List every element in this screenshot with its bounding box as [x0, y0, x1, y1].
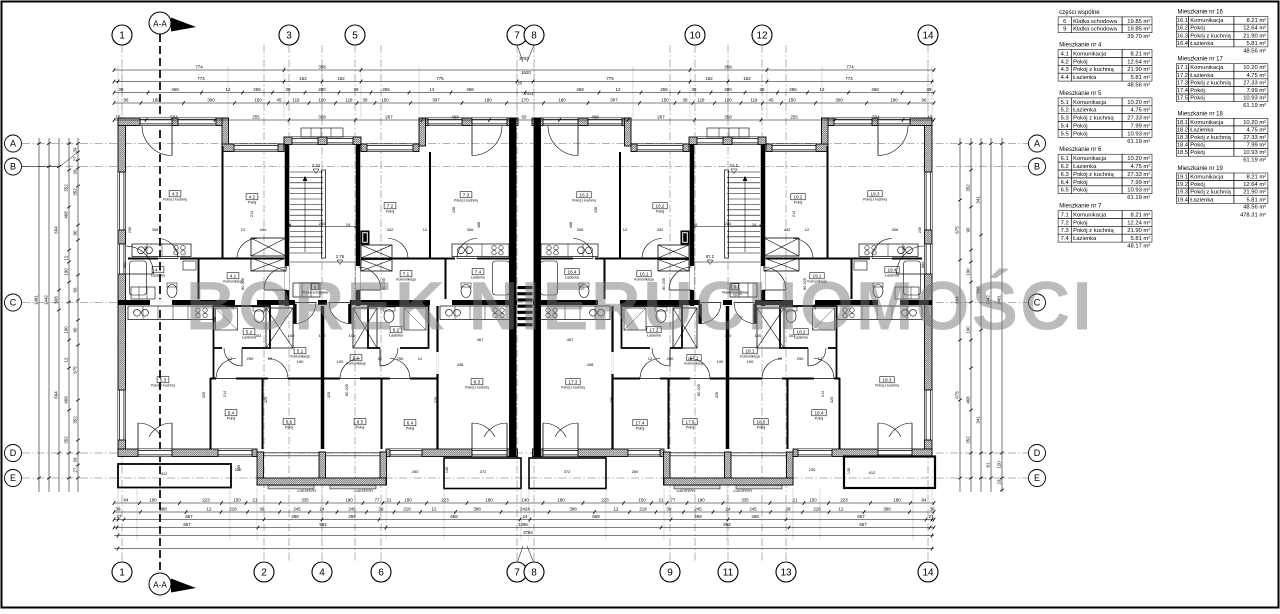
svg-text:D: D — [1034, 448, 1041, 458]
svg-text:5.3: 5.3 — [160, 377, 167, 382]
svg-text:21: 21 — [253, 497, 258, 502]
svg-text:4.75 m²: 4.75 m² — [1246, 73, 1266, 79]
svg-text:D: D — [10, 448, 17, 458]
svg-text:150: 150 — [788, 97, 796, 102]
svg-text:25: 25 — [518, 81, 523, 86]
svg-text:Pokój: Pokój — [1190, 96, 1205, 102]
svg-text:4.3: 4.3 — [172, 191, 179, 196]
svg-text:27: 27 — [73, 467, 78, 472]
svg-text:19.1: 19.1 — [1177, 175, 1188, 181]
svg-text:Pokój: Pokój — [636, 427, 645, 431]
svg-text:Pokój: Pokój — [1190, 150, 1205, 156]
door bath 4.4 — [158, 239, 178, 259]
room 19.4 — [885, 267, 899, 273]
shaft left of staircase (double) — [251, 238, 286, 256]
svg-text:12: 12 — [228, 356, 233, 361]
svg-text:Komunikacja: Komunikacja — [1190, 120, 1224, 126]
svg-text:438: 438 — [457, 362, 464, 367]
svg-text:12: 12 — [756, 31, 768, 42]
svg-text:398: 398 — [159, 506, 167, 511]
svg-text:478.31 m²: 478.31 m² — [1240, 212, 1266, 218]
svg-text:180: 180 — [893, 497, 901, 502]
svg-text:5.4: 5.4 — [1061, 124, 1070, 130]
svg-text:3: 3 — [286, 31, 292, 42]
room 7.1 — [400, 271, 412, 277]
svg-text:12: 12 — [64, 255, 69, 260]
svg-text:664: 664 — [123, 262, 127, 268]
svg-text:12: 12 — [207, 506, 212, 511]
svg-text:18.4: 18.4 — [1177, 143, 1189, 149]
axis circles bottom — [112, 562, 132, 582]
svg-text:Mieszkanie nr 16: Mieszkanie nr 16 — [1178, 10, 1224, 16]
svg-text:6: 6 — [1063, 19, 1066, 25]
svg-text:245: 245 — [749, 506, 757, 511]
svg-text:7.99 m²: 7.99 m² — [1246, 88, 1266, 94]
svg-text:12: 12 — [623, 227, 628, 232]
room 16.2 — [653, 203, 667, 209]
svg-text:150: 150 — [404, 497, 412, 502]
svg-text:48.17 m²: 48.17 m² — [1127, 244, 1150, 250]
svg-text:398: 398 — [569, 506, 577, 511]
svg-text:4.1: 4.1 — [1061, 51, 1069, 57]
svg-text:4.4: 4.4 — [1061, 75, 1070, 81]
svg-text:218: 218 — [403, 506, 411, 511]
svg-text:150: 150 — [254, 97, 262, 102]
svg-text:508: 508 — [54, 296, 59, 304]
svg-text:39: 39 — [119, 87, 124, 92]
svg-text:694: 694 — [54, 226, 59, 234]
mailboxes staircase — [293, 283, 320, 297]
svg-text:675: 675 — [955, 391, 960, 399]
door bath 7.4 — [457, 239, 477, 259]
svg-text:9: 9 — [1063, 27, 1066, 33]
room 19.3 — [868, 191, 882, 197]
svg-text:12: 12 — [430, 87, 435, 92]
svg-text:Pokój: Pokój — [1190, 182, 1205, 188]
svg-text:27: 27 — [73, 156, 78, 161]
svg-text:Pokój: Pokój — [1073, 131, 1088, 137]
window room 7.2 — [367, 144, 413, 151]
shaft right of staircase (double) — [361, 245, 392, 258]
svg-text:10: 10 — [689, 31, 701, 42]
svg-text:223: 223 — [202, 497, 210, 502]
room 16.1 — [637, 271, 651, 277]
svg-text:214: 214 — [821, 391, 825, 397]
room 6.1 — [350, 355, 362, 361]
room 9 — [732, 284, 739, 290]
bottom windows rooms 5.4 6.4 — [218, 449, 252, 456]
svg-text:152: 152 — [337, 76, 345, 81]
svg-text:2.76: 2.76 — [336, 254, 345, 259]
svg-text:120: 120 — [318, 97, 326, 102]
terrace room 6.3 — [444, 458, 521, 489]
svg-text:5.4: 5.4 — [228, 410, 235, 415]
svg-text:307: 307 — [610, 97, 618, 102]
svg-text:372: 372 — [564, 469, 571, 474]
svg-text:24: 24 — [346, 222, 351, 227]
svg-text:358: 358 — [724, 64, 732, 69]
svg-text:17.1: 17.1 — [1177, 65, 1188, 71]
room 17.1 — [687, 355, 701, 361]
svg-text:657: 657 — [857, 514, 865, 519]
svg-text:7.99 m²: 7.99 m² — [1131, 124, 1151, 130]
svg-text:8.21 m²: 8.21 m² — [1131, 212, 1151, 218]
central joint hatch between walls — [518, 286, 533, 289]
svg-text:39: 39 — [379, 506, 384, 511]
svg-text:Pokój: Pokój — [815, 417, 824, 421]
svg-text:18.2: 18.2 — [1177, 128, 1188, 134]
room 6 — [312, 284, 319, 290]
section line A-A — [159, 34, 161, 578]
svg-text:96: 96 — [922, 97, 927, 102]
svg-text:5.1: 5.1 — [1061, 100, 1069, 106]
svg-text:Łazienka: Łazienka — [1073, 236, 1097, 242]
shaft corridor 5.1 — [266, 308, 293, 348]
svg-text:16.1: 16.1 — [1177, 18, 1188, 24]
svg-text:16.3: 16.3 — [580, 192, 589, 197]
svg-text:Komunikacja: Komunikacja — [346, 362, 366, 366]
balcony door room 4.3 — [140, 118, 172, 125]
svg-text:Łazienka: Łazienka — [1190, 41, 1214, 47]
svg-text:5.1: 5.1 — [297, 348, 304, 353]
svg-text:A: A — [1034, 139, 1040, 149]
svg-text:306: 306 — [152, 227, 159, 232]
svg-text:90: 90 — [73, 230, 78, 235]
svg-text:17.3: 17.3 — [569, 379, 578, 384]
terrace right end — [844, 457, 935, 489]
svg-text:Komunikacja: Komunikacja — [290, 355, 310, 359]
svg-text:306: 306 — [467, 227, 474, 232]
svg-text:358: 358 — [318, 114, 326, 119]
svg-text:352: 352 — [966, 184, 971, 192]
svg-text:170: 170 — [521, 97, 529, 102]
bottom wall: french door room 5.3 — [138, 449, 172, 456]
svg-text:260: 260 — [632, 469, 639, 474]
svg-text:6: 6 — [378, 568, 384, 579]
svg-text:Pokój z kuchnią: Pokój z kuchnią — [1073, 228, 1114, 234]
svg-text:255: 255 — [660, 87, 668, 92]
svg-text:12: 12 — [64, 357, 69, 362]
svg-text:Pokój z kuchnią: Pokój z kuchnią — [863, 198, 887, 202]
svg-text:17.4: 17.4 — [1177, 88, 1189, 94]
svg-text:61.19 m²: 61.19 m² — [1127, 195, 1150, 201]
svg-text:5.81 m²: 5.81 m² — [1131, 236, 1151, 242]
svg-text:Komunikacja: Komunikacja — [1190, 175, 1224, 181]
svg-text:Mieszkanie nr 17: Mieszkanie nr 17 — [1178, 57, 1224, 63]
svg-text:48.56 m²: 48.56 m² — [1127, 83, 1150, 89]
room 17.4 — [633, 420, 647, 426]
cabinet corridor 4.1 — [131, 287, 155, 299]
room 19.1 — [810, 273, 824, 279]
balcony door room 7.3 — [472, 118, 507, 125]
svg-text:77: 77 — [375, 497, 380, 502]
svg-text:Pokój z kuchnią: Pokój z kuchnią — [1190, 135, 1231, 141]
axis letter circles — [5, 135, 22, 152]
svg-text:E: E — [10, 473, 16, 483]
svg-text:245: 245 — [348, 506, 356, 511]
bedroom wall 6.5|6.4 — [381, 378, 383, 449]
svg-text:Mieszkanie nr 19: Mieszkanie nr 19 — [1178, 166, 1224, 172]
svg-text:675: 675 — [955, 226, 960, 234]
svg-text:48.56 m²: 48.56 m² — [1243, 48, 1266, 54]
svg-text:LUKSFERY: LUKSFERY — [677, 489, 697, 493]
svg-text:8.21 m²: 8.21 m² — [1131, 51, 1151, 57]
room 4.4 — [152, 267, 164, 273]
svg-text:Pokój: Pokój — [1073, 220, 1088, 226]
svg-text:12: 12 — [423, 227, 428, 232]
svg-text:4.3: 4.3 — [1061, 67, 1069, 73]
svg-text:152: 152 — [743, 76, 751, 81]
svg-text:Pokój z kuchnią: Pokój z kuchnią — [1190, 80, 1231, 86]
svg-text:Komunikacja: Komunikacja — [684, 362, 704, 366]
apartment separation wall 5|6 — [321, 306, 325, 449]
svg-text:214: 214 — [223, 391, 227, 397]
svg-text:412: 412 — [161, 471, 168, 476]
svg-text:Pokój: Pokój — [1073, 124, 1088, 130]
svg-text:7.2: 7.2 — [387, 203, 394, 208]
svg-text:775: 775 — [436, 76, 444, 81]
svg-text:774: 774 — [195, 64, 203, 69]
svg-text:6.1: 6.1 — [1061, 156, 1069, 162]
svg-text:119: 119 — [698, 97, 706, 102]
svg-text:5.81 m²: 5.81 m² — [1246, 197, 1266, 203]
bedroom top wall — [210, 378, 437, 380]
top dimension lines — [114, 69, 934, 71]
svg-text:358: 358 — [318, 64, 326, 69]
svg-text:230: 230 — [128, 227, 132, 233]
svg-text:4.2: 4.2 — [1061, 59, 1069, 65]
svg-text:90: 90 — [73, 327, 78, 332]
svg-text:24: 24 — [320, 506, 325, 511]
svg-text:3784: 3784 — [523, 530, 533, 535]
svg-text:268: 268 — [291, 514, 299, 519]
svg-text:Łazienka: Łazienka — [1073, 108, 1097, 114]
svg-text:5.5: 5.5 — [286, 419, 293, 424]
svg-text:21.90 m²: 21.90 m² — [1127, 228, 1150, 234]
svg-text:38: 38 — [363, 97, 368, 102]
svg-text:18.4: 18.4 — [815, 410, 824, 415]
svg-text:432: 432 — [387, 227, 394, 232]
svg-text:12: 12 — [648, 356, 653, 361]
svg-text:190: 190 — [297, 359, 304, 364]
svg-text:2: 2 — [261, 568, 267, 579]
room 4.3 — [169, 191, 181, 197]
svg-text:Pokój z kuchnią: Pokój z kuchnią — [561, 386, 585, 390]
svg-text:4.75 m²: 4.75 m² — [1131, 108, 1151, 114]
svg-text:255: 255 — [252, 114, 260, 119]
svg-text:1520: 1520 — [521, 70, 531, 75]
room 5.1 — [294, 348, 306, 354]
svg-text:1: 1 — [119, 31, 125, 42]
svg-text:4: 4 — [319, 568, 325, 579]
svg-text:Pokój z kuchnią: Pokój z kuchnią — [1073, 67, 1114, 73]
svg-text:255: 255 — [382, 87, 390, 92]
svg-text:81: 81 — [986, 462, 991, 467]
svg-text:325: 325 — [434, 397, 438, 403]
svg-text:Łazienka: Łazienka — [1190, 128, 1214, 134]
bedroom wall 5.4|5.5 — [262, 378, 264, 449]
svg-text:16.3: 16.3 — [1177, 33, 1188, 39]
kitchen apt 4 — [132, 244, 191, 257]
room 17.3 — [566, 379, 580, 385]
svg-text:352: 352 — [73, 188, 78, 196]
svg-text:19.85 m²: 19.85 m² — [1127, 19, 1150, 25]
svg-text:Pokój: Pokój — [794, 201, 803, 205]
svg-text:180: 180 — [485, 497, 493, 502]
svg-text:438: 438 — [587, 362, 594, 367]
staircase windows — [292, 137, 318, 144]
svg-text:10.20 m²: 10.20 m² — [1243, 65, 1266, 71]
svg-text:9: 9 — [667, 568, 673, 579]
svg-text:245: 245 — [293, 506, 301, 511]
exterior wall: left — [118, 118, 126, 456]
svg-text:39: 39 — [927, 87, 932, 92]
door 4.1 to 4.2 — [237, 239, 257, 259]
svg-text:12: 12 — [820, 87, 825, 92]
bedroom wall 5.4|5.3 — [210, 378, 212, 449]
svg-text:17.3: 17.3 — [1177, 80, 1188, 86]
svg-text:190: 190 — [337, 359, 344, 364]
kitchen apt 5 — [128, 306, 213, 320]
svg-text:150: 150 — [638, 497, 646, 502]
svg-text:18.1: 18.1 — [746, 348, 755, 353]
staircase entry door to corridor 6.1 — [329, 303, 350, 324]
svg-text:135: 135 — [237, 465, 241, 471]
svg-text:84: 84 — [124, 497, 129, 502]
svg-text:Pokój z kuchnią: Pokój z kuchnią — [1073, 172, 1114, 178]
svg-text:658: 658 — [450, 514, 458, 519]
svg-text:15: 15 — [928, 114, 933, 119]
svg-text:150: 150 — [661, 97, 669, 102]
staircase wall left — [285, 144, 290, 306]
svg-text:5.81 m²: 5.81 m² — [1246, 41, 1266, 47]
svg-text:190: 190 — [64, 268, 69, 276]
svg-text:135: 135 — [847, 468, 851, 474]
svg-text:39.70 m²: 39.70 m² — [1127, 34, 1150, 40]
svg-text:15: 15 — [116, 114, 121, 119]
svg-text:269: 269 — [348, 514, 356, 519]
svg-text:432: 432 — [260, 227, 267, 232]
svg-text:24: 24 — [752, 222, 757, 227]
room 5.5 — [283, 419, 295, 425]
svg-text:335: 335 — [741, 497, 749, 502]
svg-text:Pokój: Pokój — [386, 210, 395, 214]
svg-text:1286: 1286 — [518, 522, 528, 527]
bath 5.2 fixtures — [216, 308, 238, 330]
svg-text:14: 14 — [922, 568, 934, 579]
svg-text:12: 12 — [778, 356, 783, 361]
exterior wall: top segment (room 7.2) — [361, 144, 419, 152]
svg-text:18.3: 18.3 — [1177, 135, 1188, 141]
svg-text:223: 223 — [840, 497, 848, 502]
svg-text:119: 119 — [346, 97, 354, 102]
exterior wall: bottom (segments) — [118, 449, 257, 457]
svg-text:80 205: 80 205 — [697, 384, 701, 396]
witness lines bottom — [117, 488, 119, 540]
svg-text:4.75 m²: 4.75 m² — [1131, 164, 1151, 170]
svg-text:12: 12 — [614, 506, 619, 511]
svg-text:325: 325 — [610, 397, 614, 403]
svg-text:468: 468 — [569, 222, 573, 228]
svg-text:119: 119 — [293, 97, 301, 102]
svg-text:358: 358 — [724, 114, 732, 119]
svg-text:468: 468 — [64, 396, 69, 404]
svg-text:11: 11 — [723, 568, 734, 579]
svg-text:412: 412 — [869, 470, 876, 475]
svg-text:7.3: 7.3 — [463, 192, 470, 197]
svg-text:Mieszkanie nr 5: Mieszkanie nr 5 — [1059, 91, 1102, 97]
svg-text:27: 27 — [929, 514, 934, 519]
svg-text:6.5: 6.5 — [1061, 188, 1069, 194]
svg-text:230: 230 — [918, 227, 922, 233]
svg-text:17.5: 17.5 — [1177, 96, 1188, 102]
svg-text:61.19 m²: 61.19 m² — [1243, 158, 1266, 164]
svg-text:335: 335 — [301, 497, 309, 502]
window room 4.3 top — [178, 118, 216, 125]
svg-text:504: 504 — [872, 114, 880, 119]
svg-text:21: 21 — [387, 497, 392, 502]
svg-text:325: 325 — [830, 397, 834, 403]
svg-text:Pokój z kuchnią: Pokój z kuchnią — [1190, 190, 1231, 196]
room 7.4 — [472, 269, 484, 275]
svg-text:19.85 m²: 19.85 m² — [1127, 27, 1150, 33]
svg-text:260: 260 — [412, 469, 419, 474]
svg-text:435: 435 — [452, 207, 456, 213]
svg-text:6.5: 6.5 — [357, 419, 364, 424]
svg-text:Pokój: Pokój — [686, 426, 695, 430]
svg-text:592: 592 — [723, 522, 731, 527]
shaft corridor 6.1 — [353, 308, 377, 348]
svg-text:18.5: 18.5 — [1177, 150, 1188, 156]
svg-text:Pokój: Pokój — [1190, 88, 1205, 94]
svg-text:218: 218 — [813, 506, 821, 511]
svg-text:8.21 m²: 8.21 m² — [1246, 18, 1266, 24]
svg-text:39: 39 — [73, 457, 78, 462]
svg-text:24: 24 — [523, 514, 528, 519]
room 18.2 — [794, 329, 808, 335]
room 6.2 — [390, 327, 402, 333]
svg-text:774: 774 — [845, 76, 853, 81]
svg-text:267: 267 — [657, 114, 665, 119]
svg-text:80 205: 80 205 — [345, 384, 349, 396]
svg-text:352: 352 — [966, 436, 971, 444]
svg-text:7.99 m²: 7.99 m² — [1131, 180, 1151, 186]
svg-text:180: 180 — [152, 97, 160, 102]
svg-text:6.3: 6.3 — [474, 379, 481, 384]
svg-text:120: 120 — [997, 461, 1002, 469]
svg-text:Pokój z kuchnią: Pokój z kuchnią — [151, 384, 175, 388]
room 16.4 — [565, 269, 579, 275]
svg-text:468: 468 — [466, 87, 474, 92]
svg-text:Mieszkanie nr 6: Mieszkanie nr 6 — [1059, 147, 1102, 153]
door left wall room 5.3 — [118, 244, 125, 274]
svg-text:180: 180 — [890, 97, 898, 102]
svg-text:19.3: 19.3 — [871, 191, 880, 196]
leader B left — [21, 166, 60, 168]
svg-text:7: 7 — [514, 31, 520, 42]
svg-text:Pokój z kuchnią: Pokój z kuchnią — [875, 384, 899, 388]
svg-text:19.2: 19.2 — [794, 194, 803, 199]
svg-text:774: 774 — [197, 76, 205, 81]
svg-text:140: 140 — [521, 497, 529, 502]
svg-text:50: 50 — [522, 114, 527, 119]
svg-text:5: 5 — [352, 31, 358, 42]
svg-text:10.93 m²: 10.93 m² — [1127, 131, 1150, 137]
room 18.3 — [880, 377, 894, 383]
svg-text:468: 468 — [64, 211, 69, 219]
svg-text:Klatka schodowa: Klatka schodowa — [1073, 27, 1118, 33]
svg-text:341: 341 — [976, 416, 981, 424]
